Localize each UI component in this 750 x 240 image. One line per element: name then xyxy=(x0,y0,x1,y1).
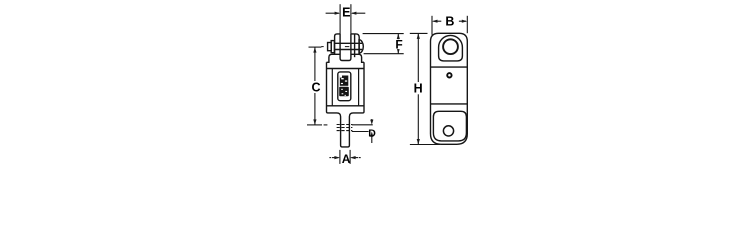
pin left washer xyxy=(331,41,334,53)
clevis right prong xyxy=(351,34,359,54)
body inner left edge xyxy=(331,69,333,106)
dimension F top extension line xyxy=(363,33,404,35)
dimension F bottom extension line xyxy=(364,53,404,55)
dimension C bottom extension line xyxy=(307,124,327,126)
body top seam xyxy=(327,68,365,70)
dimension E extension line left xyxy=(339,4,341,34)
dimension D top extension line xyxy=(352,124,373,126)
dimension C line with arrows xyxy=(313,47,316,125)
clevis slot U xyxy=(340,34,351,61)
body bottom seam xyxy=(327,105,365,107)
side view bottom boss xyxy=(433,111,466,141)
pin nut (right, rounded) xyxy=(359,40,363,54)
svg-text:A: A xyxy=(342,152,351,166)
dimension E right arrow xyxy=(351,12,365,15)
pin shaft xyxy=(334,42,362,44)
side view bottom seam xyxy=(431,103,468,105)
body outline with shank xyxy=(327,62,365,147)
pin head xyxy=(328,43,332,51)
dimension A left arrow xyxy=(329,156,340,159)
side view top seam xyxy=(431,66,468,68)
label F xyxy=(395,39,404,49)
label plate glyph top xyxy=(340,76,349,86)
label H xyxy=(412,82,424,94)
dimension H bottom extension line xyxy=(410,144,440,146)
dimension E left arrow xyxy=(326,12,341,15)
side view top boss xyxy=(439,35,463,61)
dimension H top extension line xyxy=(410,32,428,34)
clevis left prong xyxy=(335,34,341,54)
dimension E extension line right xyxy=(350,4,352,34)
svg-text:E: E xyxy=(342,6,350,20)
dimension D arrows xyxy=(370,119,373,143)
pin centerline dashes xyxy=(321,46,349,48)
svg-text:H: H xyxy=(414,82,423,96)
dimension A right arrow xyxy=(350,156,361,159)
side view bottom hole xyxy=(443,126,453,136)
dimension B extension lines xyxy=(432,16,467,35)
clevis right prong front edge xyxy=(354,34,356,57)
side view top hole xyxy=(443,39,458,54)
dimension A extension lines xyxy=(340,150,350,164)
dimension D bottom extension line xyxy=(352,131,369,133)
shank groove dashed lines xyxy=(337,125,353,131)
dimension C top extension line xyxy=(309,46,322,48)
side view rivet xyxy=(447,73,451,77)
svg-text:D: D xyxy=(368,128,376,140)
svg-text:C: C xyxy=(311,81,320,95)
svg-text:F: F xyxy=(395,38,402,52)
clevis base flange xyxy=(327,54,365,62)
dimension F line with arrows xyxy=(397,34,400,54)
label plate glyph bottom xyxy=(339,87,349,96)
label plate xyxy=(338,72,351,101)
side view plate xyxy=(431,33,468,144)
dimension H line with arrows xyxy=(417,33,420,144)
label C xyxy=(310,81,321,93)
body inner right edge xyxy=(358,69,360,106)
dimension B line with arrows xyxy=(432,20,467,23)
svg-text:B: B xyxy=(445,15,454,29)
